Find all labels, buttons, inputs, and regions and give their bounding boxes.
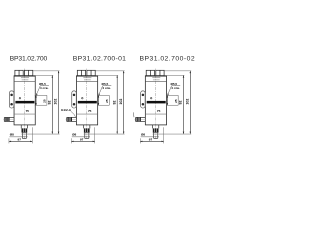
svg-text:102: 102 [119, 99, 123, 105]
svg-text:BP31.02.700: BP31.02.700 [10, 55, 48, 62]
svg-text:92: 92 [112, 101, 116, 105]
svg-text:BP31.02.700-02: BP31.02.700-02 [140, 55, 196, 62]
svg-text:G1/2-A: G1/2-A [61, 108, 72, 112]
svg-text:BP31.02.700-01: BP31.02.700-01 [73, 55, 126, 62]
svg-text:92: 92 [47, 101, 51, 105]
svg-text:102: 102 [186, 99, 190, 105]
svg-text:102: 102 [53, 99, 57, 105]
svg-text:92: 92 [179, 101, 183, 105]
